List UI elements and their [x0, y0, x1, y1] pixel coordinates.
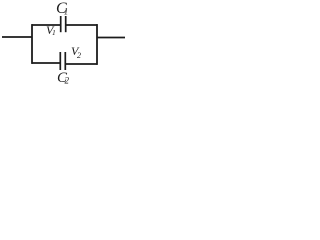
svg-text:1: 1	[64, 7, 69, 17]
wire right exit	[97, 37, 125, 39]
wire bottom left	[32, 62, 60, 64]
wire right vertical	[96, 24, 98, 65]
wire bottom right	[65, 63, 97, 65]
wire top right	[66, 24, 98, 26]
wire left vertical	[31, 24, 33, 64]
svg-text:2: 2	[65, 76, 70, 86]
capacitor C1	[61, 16, 66, 32]
svg-text:2: 2	[77, 51, 81, 60]
svg-text:1: 1	[52, 28, 56, 37]
label C1	[56, 0, 68, 17]
label V1	[46, 23, 56, 37]
wire top left	[32, 24, 61, 26]
capacitor C2	[60, 52, 65, 70]
label V2	[71, 44, 81, 60]
label C2	[57, 70, 70, 86]
wire left entry	[2, 36, 33, 38]
